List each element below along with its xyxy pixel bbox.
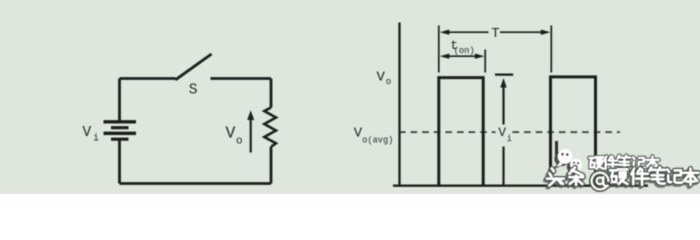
svg-text:T: T <box>491 26 499 42</box>
svg-text:V: V <box>377 70 386 86</box>
svg-text:S: S <box>189 83 198 99</box>
svg-text:V: V <box>498 125 506 140</box>
svg-text:i: i <box>507 134 512 144</box>
svg-text:o: o <box>386 77 391 87</box>
svg-text:o(avg): o(avg) <box>362 135 393 145</box>
svg-text:(on): (on) <box>454 46 475 56</box>
svg-text:o: o <box>236 136 243 148</box>
svg-text:V: V <box>226 124 236 143</box>
svg-text:V: V <box>83 125 92 141</box>
svg-text:i: i <box>93 133 99 145</box>
